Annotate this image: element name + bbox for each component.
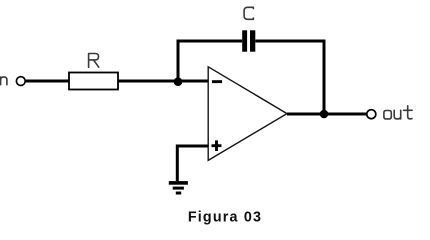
wire feedback right-down	[255, 41, 324, 114]
wire op-amp output	[287, 113, 367, 116]
op-amp plus sign	[212, 140, 222, 151]
junction node at inverting input	[174, 77, 183, 86]
wire resistor to op-amp inverting input	[118, 80, 208, 83]
capacitor C left plate	[242, 30, 247, 51]
junction node at output	[320, 110, 329, 119]
wire input to resistor	[26, 80, 69, 83]
node in terminal circle	[16, 77, 25, 86]
node out terminal circle	[367, 110, 376, 119]
label in	[1, 77, 7, 85]
resistor R	[69, 73, 118, 90]
svg-text:Figura 03: Figura 03	[188, 210, 262, 226]
label out	[384, 106, 412, 119]
wire feedback up-left	[178, 41, 242, 81]
op-amp U1 triangle	[208, 67, 287, 161]
ground symbol	[169, 181, 188, 194]
wire non-inverting input to ground drop	[177, 146, 208, 182]
capacitor C right plate	[250, 30, 255, 51]
op-amp minus sign	[212, 80, 222, 83]
label C	[244, 7, 253, 19]
label R	[89, 54, 99, 68]
